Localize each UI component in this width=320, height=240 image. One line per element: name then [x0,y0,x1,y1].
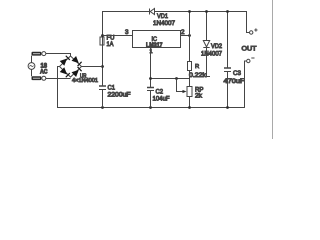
svg-text:OUT: OUT [242,46,257,53]
wire AC top to bridge [46,54,71,57]
node bridge plus junction [101,65,104,68]
wire input vertical upper [102,11,104,37]
wire top rail right segment [155,11,247,13]
AC source [28,63,35,70]
plug terminal bottom [32,76,46,80]
wire AC source top lead [31,56,33,63]
svg-text:0.22k: 0.22k [189,72,207,79]
svg-text:C1: C1 [108,85,116,92]
svg-text:VD2: VD2 [211,44,223,50]
node C3 ground [226,106,229,109]
terminal OUT plus [250,31,253,34]
label 18 AC [40,63,48,76]
label minus sign [251,57,254,59]
node ADJ at pin1 [149,77,152,80]
wire OUT plus corner [247,11,250,33]
wire AC source bottom lead [31,69,33,76]
wire pin3 [103,35,133,37]
diode VD2 [203,41,209,48]
node ADJ wiper tap [175,77,178,80]
svg-text:2: 2 [181,29,185,36]
wire pin2 [181,35,190,37]
svg-text:1N4007: 1N4007 [201,52,223,58]
terminal OUT minus [247,59,250,62]
svg-text:104uF: 104uF [153,96,170,103]
wire input vertical lower to C1 [102,45,104,87]
wire pin1 vertical [150,48,152,88]
resistor R [188,62,192,71]
wire C3 top lead [227,11,229,68]
wire AC bottom to bridge [46,78,71,80]
svg-text:VD1: VD1 [157,13,168,20]
svg-text:470uF: 470uF [224,78,245,85]
node C2 ground [149,106,152,109]
node pin2 junction [188,34,191,37]
svg-text:2200uF: 2200uF [108,92,131,99]
svg-text:AC: AC [40,69,48,76]
svg-text:LM317: LM317 [146,42,163,49]
wire VD2 bottom lead [207,48,211,77]
node C3 rail junction [226,10,229,13]
wire bridge plus output [82,66,103,68]
label RP 2k [195,87,204,100]
diode VD2 top lead [206,11,208,41]
node VD2 rail junction [205,10,208,13]
svg-text:4×1N4001: 4×1N4001 [72,78,98,84]
wire C1 bottom lead [102,90,104,108]
wire wiper riser [177,79,184,92]
diode VD1 [150,9,155,15]
node pin3 junction [101,34,104,37]
label plus sign [254,28,257,31]
wire C2 bottom lead [150,91,152,108]
wire bridge minus to ground rail [58,67,60,108]
node C1 ground [101,106,104,109]
svg-text:1: 1 [150,49,153,55]
IC U1 box LM317 [133,31,181,48]
node output rail junction [188,10,191,13]
svg-text:C3: C3 [233,70,241,77]
fuse FU [100,37,104,45]
wire R bottom to RP [189,71,191,87]
capacitor C3 [224,68,231,72]
svg-text:C2: C2 [156,89,164,96]
svg-text:2k: 2k [195,93,203,100]
svg-text:1N4007: 1N4007 [153,20,175,27]
potentiometer RP wiper arrow [183,90,187,93]
wire ADJ horizontal [151,78,190,80]
svg-text:3: 3 [125,29,129,36]
svg-text:1A: 1A [107,41,115,48]
potentiometer RP body [187,87,192,97]
rectifier bridge UR diamond [60,55,83,78]
wire C3 bottom lead [227,72,229,108]
wire bottom rail [57,107,245,109]
wire top rail left segment [102,11,149,13]
svg-text:R: R [195,64,199,70]
label FU 1A [107,35,115,49]
wire OUT minus drop [245,61,247,108]
node RP ground [188,106,191,109]
capacitor C2 [147,88,154,91]
wire output riser [189,11,191,62]
wire RP bottom [189,97,191,108]
plug terminal top [32,52,46,56]
capacitor C1 [99,86,106,90]
label IC LM317 [146,36,163,49]
